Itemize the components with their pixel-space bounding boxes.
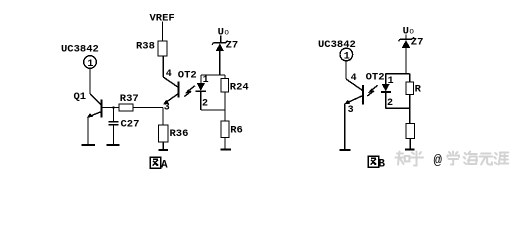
svg-text:Z7: Z7 bbox=[411, 37, 424, 49]
wire pin1 to phototransistor (fig B) bbox=[345, 61, 347, 79]
wire VREF to R38 bbox=[162, 22, 164, 42]
char 海 bbox=[464, 152, 478, 165]
wire pin1 to Q1 collector bbox=[89, 68, 91, 93]
resistor R24 bbox=[221, 79, 228, 93]
wire R37 to node 3 bbox=[133, 107, 163, 109]
svg-text:OT2: OT2 bbox=[178, 70, 197, 82]
wire zener to LED loop (fig B) bbox=[405, 48, 407, 74]
svg-text:@: @ bbox=[434, 153, 443, 169]
svg-text:R36: R36 bbox=[170, 128, 189, 140]
optocoupler OT2 phototransistor (fig B) bbox=[346, 79, 363, 91]
capacitor C27 bbox=[113, 108, 115, 122]
light arrow OT2 (fig B) bbox=[370, 85, 378, 91]
svg-text:UC3842: UC3842 bbox=[61, 44, 99, 56]
svg-text:o: o bbox=[224, 29, 229, 38]
node C27 junction bbox=[112, 106, 114, 108]
ground (R6) bbox=[220, 149, 231, 151]
svg-text:1: 1 bbox=[203, 75, 209, 86]
wire zener to LED loop (fig A) bbox=[219, 51, 221, 75]
wire Q1 base bbox=[102, 107, 120, 109]
svg-text:Z7: Z7 bbox=[226, 40, 239, 52]
optocoupler LED loop top wire (fig A) bbox=[201, 74, 225, 76]
ground (C27) bbox=[107, 144, 120, 146]
svg-text:R38: R38 bbox=[136, 41, 155, 53]
ground (fig B right) bbox=[405, 149, 414, 151]
ground (R36) bbox=[159, 149, 169, 151]
char 知 bbox=[396, 152, 410, 165]
svg-text:OT2: OT2 bbox=[366, 72, 385, 84]
resistor R6 bbox=[221, 121, 229, 138]
wire node3 to R36 bbox=[162, 108, 164, 126]
wire R bottom to lower resistor (fig B) bbox=[409, 95, 411, 124]
figure label A bbox=[150, 157, 168, 171]
wire Uo to zener bbox=[220, 36, 222, 43]
transistor Q1 bbox=[90, 94, 102, 106]
svg-text:Q1: Q1 bbox=[74, 91, 87, 103]
wire R6 to ground bbox=[224, 138, 226, 149]
svg-text:2: 2 bbox=[387, 98, 393, 109]
zener diode Z7 (fig B) bbox=[400, 38, 412, 40]
svg-text:A: A bbox=[161, 159, 168, 171]
svg-text:4: 4 bbox=[166, 69, 172, 80]
wire loop right edge top (fig A) bbox=[224, 75, 226, 79]
svg-text:R: R bbox=[415, 84, 422, 96]
svg-text:1: 1 bbox=[388, 76, 394, 87]
LED loop bottom wire (fig A) bbox=[201, 109, 225, 111]
wire Q1 emitter to ground bbox=[87, 117, 89, 145]
svg-text:1: 1 bbox=[87, 59, 93, 70]
svg-text:R37: R37 bbox=[120, 93, 139, 105]
svg-text:1: 1 bbox=[344, 51, 350, 62]
LED of OT2 (fig A) bbox=[200, 75, 202, 83]
zener diode Z7 (fig A) bbox=[214, 42, 226, 44]
LED loop bottom wire (fig B) bbox=[386, 107, 410, 109]
pin 1 terminal circle (fig B) bbox=[340, 48, 353, 61]
wire R24 bottom / to R6 bbox=[224, 92, 226, 121]
optocoupler OT2 phototransistor (fig A) bbox=[163, 77, 178, 88]
char 无 bbox=[480, 154, 493, 165]
pin 1 terminal circle (fig A) bbox=[84, 56, 97, 69]
char 乎 bbox=[410, 152, 423, 166]
wire Uo to zener (fig B) bbox=[405, 35, 407, 39]
light arrow OT2 (fig A) bbox=[187, 86, 195, 92]
resistor lower (fig B) bbox=[406, 123, 415, 138]
svg-text:C27: C27 bbox=[121, 119, 140, 131]
svg-text:R24: R24 bbox=[230, 82, 249, 94]
watermark 知乎 @学海无涯 bbox=[396, 152, 509, 170]
resistor R37 bbox=[119, 104, 133, 111]
svg-text:3: 3 bbox=[164, 103, 170, 114]
ground (Q1 emitter) bbox=[82, 144, 96, 146]
wire R38 to phototransistor collector bbox=[162, 56, 164, 77]
wire emitter to ground (fig B) bbox=[344, 104, 346, 150]
resistor R38 bbox=[158, 41, 167, 56]
LED of OT2 (fig B) bbox=[385, 74, 387, 84]
wire R36 to ground bbox=[162, 142, 164, 149]
svg-text:o: o bbox=[409, 28, 414, 37]
svg-text:B: B bbox=[378, 158, 385, 170]
svg-text:R6: R6 bbox=[230, 125, 243, 137]
svg-text:3: 3 bbox=[348, 105, 354, 116]
char 涯 bbox=[494, 153, 508, 165]
figure label B bbox=[368, 156, 385, 170]
svg-text:2: 2 bbox=[202, 98, 208, 109]
char 学 bbox=[448, 152, 460, 165]
wire lower resistor to ground (fig B) bbox=[409, 138, 411, 149]
resistor R (fig B) bbox=[406, 82, 414, 95]
wire loop right edge top (fig B) bbox=[409, 74, 411, 82]
ground (fig B emitter) bbox=[340, 149, 351, 151]
resistor R36 bbox=[159, 125, 168, 142]
LED loop top wire (fig B) bbox=[386, 73, 410, 75]
